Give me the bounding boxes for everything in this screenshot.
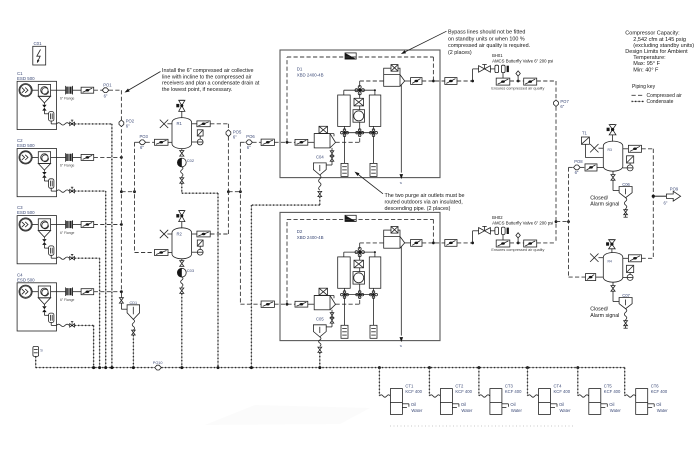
- main air header vertical: [120, 90, 122, 292]
- oil-water separator CT5: [576, 366, 621, 414]
- inlet riser D1: [336, 141, 360, 143]
- svg-text:Condensate: Condensate: [647, 99, 674, 105]
- compressor package C3: [17, 205, 57, 264]
- wire C1 outlet: [94, 89, 103, 91]
- svg-text:Oil: Oil: [559, 402, 564, 407]
- svg-text:PO8: PO8: [574, 159, 583, 164]
- drain valve R1: [180, 149, 184, 157]
- svg-text:Bypass lines should not be fit: Bypass lines should not be fitted: [448, 30, 525, 36]
- junction condensate: [98, 366, 101, 369]
- check valve R4 outlet: [623, 255, 654, 262]
- receiver branch vertical: [134, 142, 136, 252]
- svg-text:Water: Water: [560, 408, 572, 413]
- condensate line C3: [75, 257, 100, 259]
- inlet filter check D2: [295, 301, 308, 307]
- svg-text:ESD 500: ESD 500: [17, 210, 35, 215]
- svg-text:the lowest point, if necessary: the lowest point, if necessary.: [162, 87, 232, 93]
- junction condensate: [104, 366, 107, 369]
- bottom valves D1: [341, 131, 344, 134]
- condensate hose R1: [181, 167, 183, 177]
- wire R2 outlet: [210, 233, 228, 235]
- svg-text:KCF 400: KCF 400: [651, 389, 668, 394]
- svg-text:CT1: CT1: [405, 384, 414, 389]
- svg-text:Water: Water: [610, 408, 622, 413]
- air quality filter D1: [491, 78, 544, 90]
- svg-text:Alarm signal: Alarm signal: [590, 313, 619, 319]
- svg-text:6": 6": [233, 134, 237, 139]
- check valve R3 inlet: [580, 164, 603, 171]
- purge exhaust D1: [400, 85, 402, 173]
- svg-text:Closed/: Closed/: [590, 307, 608, 313]
- svg-text:KCF 400: KCF 400: [554, 389, 571, 394]
- svg-text:Oil: Oil: [411, 402, 416, 407]
- svg-text:R1: R1: [177, 121, 183, 126]
- purge valves D2: [326, 310, 334, 327]
- condensate trap CO2: [177, 158, 195, 167]
- oil-water separator CT4: [526, 366, 571, 414]
- blower D2: [353, 268, 365, 284]
- adsorber tower A D2: [338, 257, 351, 288]
- svg-text:Piping key: Piping key: [632, 84, 656, 90]
- adsorber tower A D1: [338, 95, 351, 126]
- regen riser D2: [359, 243, 361, 249]
- svg-text:PO3: PO3: [140, 134, 149, 139]
- oil-water separator CT2: [428, 366, 473, 414]
- outlet filter D1: [384, 65, 405, 87]
- junction condensate: [132, 366, 135, 369]
- regen riser D1: [359, 81, 361, 87]
- junction condensate: [110, 366, 113, 369]
- check valve R4 inlet: [569, 274, 604, 281]
- wire PO5 down: [227, 136, 229, 191]
- blower D1: [353, 106, 365, 122]
- check valve D1 external: [445, 78, 457, 85]
- inlet riser D2: [336, 303, 360, 305]
- blind connection R2: [160, 230, 172, 238]
- outlet filter D2: [384, 227, 405, 249]
- junction header to receivers: [120, 190, 123, 193]
- svg-text:⇅: ⇅: [400, 181, 403, 185]
- bottom valves D2: [341, 293, 344, 296]
- svg-text:Ensures compressed air quality: Ensures compressed air quality: [491, 248, 544, 252]
- check valve C2: [73, 154, 94, 160]
- svg-text:R4: R4: [608, 260, 612, 264]
- condensate collector CO6: [619, 182, 632, 198]
- drain fitting R3: [624, 209, 628, 218]
- junction condensate: [180, 366, 183, 369]
- top manifold D1: [344, 89, 375, 91]
- outlet header: [652, 149, 654, 258]
- dryer feed D2: [240, 303, 261, 305]
- bottom manifold D2: [345, 294, 374, 296]
- drain valve R4: [611, 282, 619, 301]
- level indicator R2: [197, 240, 203, 246]
- top switching valve D1: [355, 89, 358, 92]
- bypass line D2: [286, 303, 289, 306]
- svg-text:compressed air quality is requ: compressed air quality is required.: [448, 43, 530, 49]
- check valve R1 outlet: [192, 121, 211, 127]
- air receiver R4: [603, 253, 623, 283]
- adsorber tower B D1: [369, 95, 381, 126]
- heater valve D2: [354, 255, 364, 268]
- compressor package C2: [17, 138, 57, 197]
- capacity text: [625, 31, 694, 74]
- svg-text:XBD 2400-4B: XBD 2400-4B: [297, 73, 324, 78]
- condensate line CO5: [319, 337, 321, 346]
- svg-text:Design Limits for Ambient: Design Limits for Ambient: [625, 49, 688, 55]
- note install line: [125, 68, 260, 93]
- wire D1 to header: [510, 80, 524, 82]
- svg-text:KCF 400: KCF 400: [604, 389, 621, 394]
- condensate line CD1: [132, 319, 134, 330]
- valve PO2: [119, 118, 135, 128]
- blind connection R4: [590, 254, 603, 262]
- drain valve below header: [119, 292, 127, 309]
- svg-text:6": 6": [104, 94, 108, 99]
- flag marker D1: [345, 53, 356, 59]
- svg-text:(excluding standby units): (excluding standby units): [633, 43, 694, 49]
- condensate drain C3: [57, 254, 75, 260]
- junction header tee: [555, 220, 558, 223]
- condensate line R1: [181, 183, 183, 193]
- svg-text:6": 6": [664, 201, 668, 206]
- oil-water separator CT3: [477, 366, 522, 414]
- supply header vertical: [555, 81, 557, 100]
- check valve R3 outlet: [623, 145, 654, 152]
- condensate drain C4: [57, 322, 75, 328]
- drain fitting R4: [624, 320, 628, 329]
- gauge R2: [192, 246, 204, 255]
- bypass line D1: [286, 141, 289, 144]
- svg-text:receivers and plan a condensat: receivers and plan a condensate drain at: [162, 81, 260, 87]
- check valve R2 inlet: [135, 250, 173, 256]
- svg-text:6": 6": [140, 145, 144, 150]
- svg-text:ESD 500: ESD 500: [17, 277, 35, 282]
- wire to receiver R1: [135, 141, 140, 143]
- butterfly valve BH02: [473, 215, 554, 243]
- condensate line C2: [75, 190, 106, 192]
- compressor package C4: [17, 272, 57, 331]
- svg-text:ESD 500: ESD 500: [17, 143, 35, 148]
- condensate drain CO1: [33, 41, 46, 65]
- svg-text:Water: Water: [657, 408, 669, 413]
- svg-text:AMCS Butterfly Valve 6" 200 ps: AMCS Butterfly Valve 6" 200 psi: [492, 221, 553, 226]
- condensate collector CO7: [619, 293, 632, 309]
- svg-text:KCF 400: KCF 400: [405, 389, 422, 394]
- dryer cabinet D1: [280, 50, 440, 178]
- junction C4: [120, 290, 123, 293]
- svg-text:Min: 40° F: Min: 40° F: [633, 67, 659, 73]
- svg-text:D2: D2: [297, 229, 303, 234]
- svg-text:CT2: CT2: [455, 384, 464, 389]
- condensate line R2: [181, 294, 183, 368]
- wire R1 outlet: [210, 123, 228, 125]
- svg-text:XBD 2400-4B: XBD 2400-4B: [297, 235, 324, 240]
- svg-text:line with incline to the compr: line with incline to the compressed air: [162, 74, 252, 80]
- svg-text:Oil: Oil: [656, 402, 661, 407]
- svg-text:ESD 500: ESD 500: [17, 76, 35, 81]
- bottom manifold D1: [345, 132, 374, 134]
- dryer feed vertical: [239, 142, 241, 304]
- check valve D2 inlet: [261, 301, 274, 307]
- condensate drain C2: [57, 187, 75, 193]
- air receiver R3: [603, 141, 623, 171]
- junction condensate: [92, 366, 95, 369]
- condensate line C1: [75, 123, 112, 125]
- wire D2 to header: [510, 242, 524, 244]
- svg-text:Water: Water: [411, 408, 423, 413]
- drain hose R3: [624, 198, 626, 209]
- shutoff valve PO1: [102, 82, 121, 98]
- drain valve R3: [611, 171, 619, 190]
- compressor package C1: [17, 71, 57, 130]
- gauge R1: [192, 136, 204, 145]
- drain valve R2: [180, 259, 184, 267]
- svg-text:KCF 400: KCF 400: [505, 389, 522, 394]
- condensate valve R2: [180, 287, 184, 294]
- check valve R1 inlet: [146, 139, 172, 145]
- heater valve D1: [354, 93, 364, 106]
- svg-text:Oil: Oil: [510, 402, 515, 407]
- valve PO8: [574, 159, 584, 175]
- svg-text:CT4: CT4: [554, 384, 563, 389]
- svg-text:D1: D1: [297, 67, 303, 72]
- top manifold D2: [344, 251, 375, 253]
- outlet filter 2 D1: [524, 78, 537, 85]
- svg-text:Water: Water: [461, 408, 473, 413]
- check valve R2 outlet: [192, 231, 211, 237]
- svg-text:6": 6": [126, 123, 130, 128]
- wire C2 outlet: [94, 156, 122, 158]
- flex connector C3: [51, 220, 75, 235]
- svg-text:PO10: PO10: [153, 361, 163, 365]
- level indicator R1: [197, 130, 203, 136]
- svg-text:CT5: CT5: [604, 384, 613, 389]
- valve PO10: [153, 361, 163, 370]
- svg-text:PO6: PO6: [246, 134, 255, 139]
- final receiver branch: [568, 167, 570, 277]
- svg-text:6": 6": [575, 170, 579, 175]
- svg-text:C06: C06: [622, 182, 630, 187]
- outlet arrow PO9: [664, 186, 681, 205]
- condensate collector CO5: [313, 317, 326, 337]
- purge silencer A D1: [341, 136, 348, 177]
- oil-water separator CT6: [625, 368, 669, 415]
- svg-text:R3: R3: [608, 148, 612, 152]
- condensate drain C1: [57, 120, 75, 126]
- purge silencer B D1: [370, 136, 377, 177]
- check valve C3: [73, 222, 94, 228]
- wire C3 outlet: [94, 224, 122, 226]
- adsorber tower B D2: [369, 257, 381, 288]
- inlet separator D1: [308, 126, 336, 148]
- svg-text:6" Flange: 6" Flange: [60, 164, 75, 168]
- purge valves D1: [326, 148, 334, 165]
- svg-text:C02: C02: [187, 158, 195, 163]
- svg-text:AMCS Butterfly Valve 6" 200 ps: AMCS Butterfly Valve 6" 200 psi: [492, 59, 553, 64]
- condensate trap CO3: [177, 268, 195, 277]
- svg-text:6": 6": [560, 104, 564, 109]
- svg-text:C05: C05: [316, 317, 324, 322]
- safety valve R3: [607, 125, 616, 142]
- condensate collector CD1: [127, 301, 140, 319]
- svg-text:Max: 95° F: Max: 95° F: [633, 61, 660, 67]
- dewpoint sensor D1: [516, 71, 520, 83]
- svg-text:PO1: PO1: [103, 82, 112, 87]
- svg-text:Compressor Capacity:: Compressor Capacity:: [625, 31, 680, 37]
- svg-text:The two purge air outlets must: The two purge air outlets must be: [385, 193, 465, 199]
- svg-text:R2: R2: [177, 231, 183, 236]
- level indicator R3: [627, 156, 634, 163]
- svg-text:CT3: CT3: [505, 384, 514, 389]
- svg-text:2,542 cfm at 145 psig: 2,542 cfm at 145 psig: [633, 37, 686, 43]
- junction C3: [120, 223, 123, 226]
- purge silencer B D2: [370, 297, 377, 338]
- note purge outlets: [355, 172, 465, 213]
- drain hose R4: [624, 309, 626, 320]
- junction condensate: [250, 366, 253, 369]
- check valve D2 outlet: [405, 240, 445, 247]
- svg-text:6": 6": [247, 145, 251, 150]
- svg-text:CT6: CT6: [651, 384, 660, 389]
- svg-text:Oil: Oil: [609, 402, 614, 407]
- inlet filter check D1: [295, 139, 308, 145]
- safety valve R2: [176, 211, 185, 229]
- level indicator R4: [627, 265, 634, 272]
- piping key: [632, 84, 683, 105]
- inlet separator D2: [308, 288, 336, 310]
- svg-text:C04: C04: [316, 155, 324, 160]
- svg-text:6" Flange: 6" Flange: [60, 97, 75, 101]
- blind connection R3: [590, 144, 603, 152]
- svg-text:Oil: Oil: [461, 402, 466, 407]
- junction condensate: [318, 366, 321, 369]
- svg-text:T1: T1: [582, 130, 588, 135]
- svg-text:Install the 6" compressed air: Install the 6" compressed air collective: [162, 68, 254, 74]
- svg-text:6" Flange: 6" Flange: [60, 298, 75, 302]
- valve PO6: [246, 134, 256, 150]
- check valve D1 inlet: [261, 139, 274, 145]
- valve PO7: [554, 99, 570, 109]
- svg-text:BH01: BH01: [492, 53, 503, 58]
- condensate line CO4: [319, 175, 321, 190]
- svg-text:on standby units or when 100 %: on standby units or when 100 %: [448, 36, 525, 42]
- svg-text:Alarm signal: Alarm signal: [590, 202, 619, 208]
- safety valve R1: [176, 100, 185, 118]
- dryer feed D1: [240, 141, 245, 143]
- bypass fittings BH02: [490, 227, 509, 240]
- outlet filter 2 D2: [524, 240, 537, 247]
- faint watermark: [205, 405, 370, 425]
- flex connector C1: [51, 86, 75, 101]
- svg-text:Water: Water: [511, 408, 523, 413]
- svg-text:BH02: BH02: [492, 215, 503, 220]
- flex connector C4: [51, 287, 75, 302]
- check valve C1: [73, 87, 94, 93]
- wire connector to dryer header: [228, 191, 240, 193]
- svg-text:PO9: PO9: [670, 186, 679, 191]
- svg-text:Compressed air: Compressed air: [647, 93, 683, 99]
- flex connector C2: [51, 153, 75, 168]
- purge exhaust D2: [400, 247, 402, 336]
- valve PO3: [139, 134, 149, 150]
- separator S1: [33, 346, 43, 356]
- condensate collector CO4: [313, 155, 326, 175]
- condensate line C4: [75, 324, 94, 326]
- wire to receiver R3: [569, 166, 574, 168]
- condensate valve R1: [180, 177, 184, 184]
- air quality filter D2: [491, 240, 544, 252]
- valve PO5: [226, 129, 242, 139]
- svg-text:S: S: [40, 349, 43, 353]
- svg-text:KCF 400: KCF 400: [455, 389, 472, 394]
- condensate manifold: [35, 356, 37, 367]
- svg-text:Temperature:: Temperature:: [633, 55, 666, 61]
- junction condensate: [217, 366, 220, 369]
- svg-text:C07: C07: [622, 293, 630, 298]
- sensor T1: [581, 130, 603, 157]
- svg-text:C01: C01: [34, 41, 43, 46]
- svg-text:descending pipe. (2 places): descending pipe. (2 places): [385, 206, 451, 212]
- gauge R3: [623, 163, 633, 171]
- check valve C4: [73, 289, 94, 295]
- svg-text:C03: C03: [187, 268, 195, 273]
- condensate hose R2: [181, 277, 183, 287]
- blind connection R1: [160, 120, 172, 128]
- purge silencer A D2: [341, 297, 348, 338]
- safety valve R4: [606, 240, 615, 253]
- svg-text:routed outdoors via an insulat: routed outdoors via an insulated,: [385, 200, 464, 206]
- top switching valve D2: [355, 251, 358, 254]
- gauge R4: [623, 273, 633, 281]
- air receiver R1: [172, 118, 192, 149]
- check valve D2 external: [445, 240, 457, 247]
- dewpoint sensor D2: [516, 233, 520, 245]
- svg-text:6" Flange: 6" Flange: [60, 231, 75, 235]
- butterfly valve BH01: [473, 53, 554, 81]
- svg-text:(2 places): (2 places): [448, 50, 472, 56]
- flag marker D2: [345, 215, 356, 221]
- junction C2: [120, 156, 123, 159]
- check valve D1 outlet: [405, 78, 445, 85]
- wire C4 outlet: [94, 291, 122, 293]
- bypass fittings BH01: [490, 65, 509, 78]
- svg-text:⇅: ⇅: [400, 344, 403, 348]
- oil-water separator CT1: [378, 366, 423, 414]
- svg-text:Closed/: Closed/: [590, 195, 608, 201]
- air receiver R2: [172, 228, 192, 259]
- svg-text:Ensures compressed air quality: Ensures compressed air quality: [491, 86, 544, 90]
- note bypass lines: [401, 30, 530, 56]
- dryer cabinet D2: [280, 212, 440, 340]
